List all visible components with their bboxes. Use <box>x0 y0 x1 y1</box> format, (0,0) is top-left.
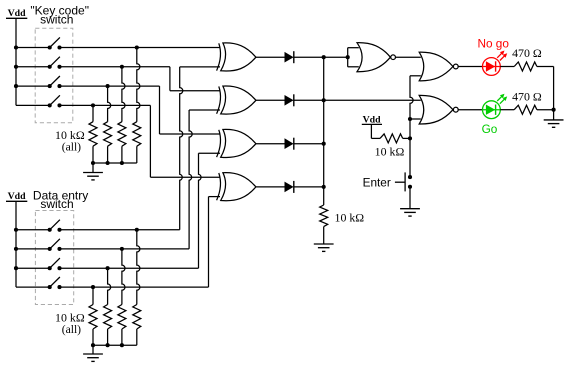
wire D1 cathode to common node <box>294 56 324 58</box>
node data bus row 1 <box>14 228 18 232</box>
resistor R6 10 kΩ (data row 2 pulldown) <box>118 305 126 330</box>
wire key row 2 to jog <box>60 66 170 68</box>
wire key row 2 jog down to XOR U2 input A <box>170 67 220 91</box>
node data row 4 pulldown tap <box>91 285 95 289</box>
wire data row 1 drop to R5 <box>137 230 140 305</box>
wire U1 output to D1 <box>256 56 285 58</box>
wire key row 4 drop to R4 <box>92 105 94 121</box>
led D6 Go (green) <box>483 94 508 119</box>
label "Key code" switch <box>30 3 89 26</box>
resistor R2 10 kΩ (key row 2 pulldown) <box>118 122 126 147</box>
wire U6 input B to enter net <box>410 76 421 177</box>
label 10 kΩ (all) key resistors <box>55 128 85 154</box>
node data ground bus x=107.6 <box>106 343 110 347</box>
node U5 input tie <box>346 55 350 59</box>
wire data resistor ground bus <box>93 329 137 345</box>
node data bus row 3 <box>14 266 18 270</box>
resistor R8 10 kΩ (data row 4 pulldown) <box>89 305 97 330</box>
wire data row 3 riser to XOR U3 input B <box>199 153 221 268</box>
node U7 input B junction <box>408 117 412 121</box>
dashed enclosure (key code switch bank) <box>35 28 73 123</box>
switch SW1 (key code bit 1) <box>48 37 62 49</box>
wire data Vdd bus <box>15 230 17 287</box>
wire data row 4 to riser <box>60 286 209 288</box>
xor gate U3 <box>217 129 256 157</box>
label 10 kΩ (all) data resistors <box>55 311 85 337</box>
wire D2 cathode to common node <box>294 99 324 101</box>
node key row 2 pulldown tap <box>120 65 124 69</box>
label R12 value 470 Ω <box>512 89 542 103</box>
xor gate U1 <box>217 43 256 71</box>
node key row 1 pulldown tap <box>135 45 139 49</box>
resistor R1 10 kΩ (key row 1 pulldown) <box>133 122 141 147</box>
resistor R4 10 kΩ (key row 4 pulldown) <box>89 122 97 147</box>
node data row 2 pulldown tap <box>120 247 124 251</box>
wire data row 4 drop to R8 <box>92 287 94 304</box>
wire data row 1 to riser <box>60 229 180 231</box>
node key row 3 pulldown tap <box>106 84 110 88</box>
wire U4 output to D4 <box>256 186 285 188</box>
label Go <box>482 122 498 136</box>
resistor R5 10 kΩ (data row 1 pulldown) <box>133 305 141 330</box>
wire D4 cathode to common node <box>294 186 324 188</box>
label Data entry switch <box>33 188 88 211</box>
wire R11 to ground rail <box>537 67 554 110</box>
svg-text:470 Ω: 470 Ω <box>512 89 542 103</box>
svg-text:Go: Go <box>482 122 498 136</box>
node LED ground junction <box>552 108 556 112</box>
wire U5 output to U6 input A <box>396 56 421 58</box>
power rail Vdd (key code section) <box>6 8 27 47</box>
node key bus row 1 <box>14 45 18 49</box>
wire U6 output to LED D5 <box>458 66 483 68</box>
wire key row 1 to XOR U1 input A <box>60 47 221 49</box>
wire data row 2 to riser <box>60 248 190 250</box>
node common line row 3 <box>322 142 326 146</box>
node data ground bus x=93.0 <box>91 343 95 347</box>
label Enter <box>363 176 391 190</box>
node key bus row 2 <box>14 65 18 69</box>
wire data row 2 riser to XOR U2 input B <box>189 110 220 249</box>
wire U5 input tie bar <box>348 48 359 67</box>
diode D1 <box>285 51 294 63</box>
label R10 value 10 kΩ <box>335 211 365 225</box>
svg-text:10 kΩ: 10 kΩ <box>375 144 405 158</box>
resistor R3 10 kΩ (key row 3 pulldown) <box>104 122 112 147</box>
node data row 1 pulldown tap <box>135 228 139 232</box>
svg-text:Vdd: Vdd <box>8 191 27 202</box>
wire data row 4 feed <box>16 286 50 288</box>
wire U2 output to D2 <box>256 99 285 101</box>
wire common row 1 to U5 input <box>324 56 348 58</box>
svg-text:switch: switch <box>40 12 73 26</box>
ground (key code section) <box>83 163 103 180</box>
svg-text:Vdd: Vdd <box>8 8 27 19</box>
node key ground bus x=93.0 <box>91 161 95 165</box>
svg-text:No go: No go <box>477 37 509 51</box>
svg-text:470 Ω: 470 Ω <box>512 46 542 60</box>
wire data row 1 feed <box>16 229 50 231</box>
label R11 value 470 Ω <box>512 46 542 60</box>
diode D3 <box>285 138 294 150</box>
nor gate U6 (No go driver) <box>419 52 458 81</box>
ground (data entry section) <box>83 345 103 361</box>
wire data row 3 drop to R7 <box>108 268 111 304</box>
wire common diode line (net COMP) <box>323 57 325 187</box>
wire key row 2 drop to R2 <box>122 67 125 122</box>
node common line row 1 <box>322 55 326 59</box>
wire R12 to ground node <box>537 109 554 111</box>
svg-text:(all): (all) <box>62 323 81 336</box>
wire data row 3 feed <box>16 267 50 269</box>
led D5 No go (red) <box>483 51 508 76</box>
wire key row 3 to jog <box>60 85 160 87</box>
dashed enclosure (data entry switch bank) <box>35 211 73 305</box>
wire D3 cathode to common node <box>294 143 324 145</box>
wire key row 4 jog down to XOR U4 input A <box>150 105 220 177</box>
switch SW5 (data entry bit 1) <box>48 220 62 232</box>
node data bus row 2 <box>14 247 18 251</box>
switch SW7 (data entry bit 3) <box>48 258 62 270</box>
resistor R10 10 kΩ (common pulldown) <box>320 205 328 227</box>
wire LED D5 to R11 <box>500 66 514 68</box>
switch SW8 (data entry bit 4) <box>48 277 62 289</box>
wire key row 1 feed <box>16 47 50 49</box>
node key ground bus x=107.6 <box>106 161 110 165</box>
xor gate U4 <box>217 173 256 201</box>
resistor R12 470 Ω <box>514 105 537 114</box>
switch SW3 (key code bit 3) <box>48 76 62 88</box>
wire data row 4 riser to XOR U4 input B <box>209 197 221 288</box>
svg-text:(all): (all) <box>62 141 81 154</box>
wire data row 1 riser to XOR U1 input B <box>180 67 220 230</box>
svg-text:Enter: Enter <box>363 176 391 190</box>
wire key Vdd bus <box>15 48 17 106</box>
nor gate U7 (Go driver) <box>419 95 458 124</box>
wire key resistor ground bus <box>93 146 137 163</box>
svg-text:switch: switch <box>40 197 73 211</box>
wire key row 1 drop to R1 <box>137 48 140 122</box>
wire LED D6 to R12 <box>500 109 514 111</box>
wire data row 2 drop to R6 <box>122 249 125 305</box>
node key ground bus x=121.9 <box>120 161 124 165</box>
node common line row 4 <box>322 185 326 189</box>
power rail Vdd (enter pullup) <box>362 115 382 139</box>
wire key row 4 to jog <box>60 104 151 106</box>
diode D4 <box>285 181 294 193</box>
switch SW2 (key code bit 2) <box>48 57 62 69</box>
wire key row 4 feed <box>16 104 50 106</box>
wire U7 output to LED D6 <box>458 109 483 111</box>
wire R9 to enter net <box>403 137 410 139</box>
node key row 4 pulldown tap <box>91 103 95 107</box>
label R9 value 10 kΩ <box>375 144 405 158</box>
node data row 3 pulldown tap <box>106 266 110 270</box>
wire key row 2 feed <box>16 66 50 68</box>
node enter pullup junction <box>408 136 412 140</box>
wire key row 3 feed <box>16 85 50 87</box>
wire common line to pulldown R10 <box>323 187 325 205</box>
wire data row 3 to riser <box>60 267 199 269</box>
node key bus row 3 <box>14 84 18 88</box>
svg-text:10 kΩ: 10 kΩ <box>335 211 365 225</box>
wire key row 3 jog down to XOR U3 input A <box>160 86 221 134</box>
power rail Vdd (data entry section) <box>6 191 27 230</box>
resistor R9 10 kΩ (enter pullup) <box>380 134 403 143</box>
wire key row 3 drop to R3 <box>108 86 111 122</box>
node data ground bus x=121.9 <box>120 343 124 347</box>
ground (common pulldown) <box>314 227 334 252</box>
node common line row 2 <box>322 98 326 102</box>
nor gate U5 (inverter) <box>357 43 395 72</box>
xor gate U2 <box>217 86 256 114</box>
label No go <box>477 37 509 51</box>
diode D2 <box>285 94 294 106</box>
wire U7 input B stub <box>410 118 421 120</box>
switch SW9 (Enter pushbutton) <box>395 172 412 191</box>
resistor R11 470 Ω <box>514 62 537 71</box>
ground (enter switch) <box>400 209 420 216</box>
wire enter switch to ground <box>409 187 411 209</box>
switch SW6 (data entry bit 2) <box>48 239 62 251</box>
ground (LED return) <box>544 110 564 128</box>
wire U3 output to D3 <box>256 143 285 145</box>
resistor R7 10 kΩ (data row 3 pulldown) <box>104 305 112 330</box>
wire data row 2 feed <box>16 248 50 250</box>
switch SW4 (key code bit 4) <box>48 95 62 107</box>
wire common row 2 to U7 input A <box>324 99 421 101</box>
